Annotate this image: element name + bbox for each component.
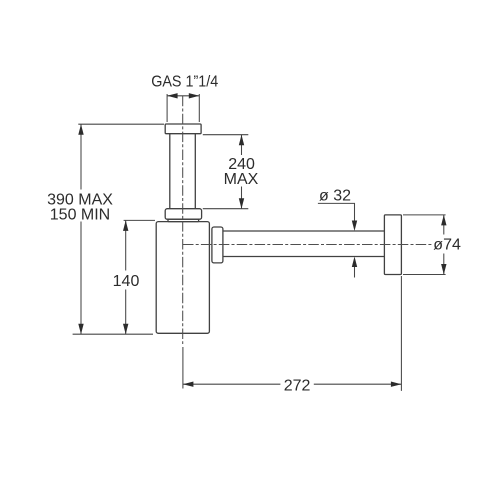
svg-text:ø 32: ø 32 xyxy=(319,187,351,204)
svg-text:ø74: ø74 xyxy=(433,236,461,253)
svg-text:MAX: MAX xyxy=(224,171,259,188)
svg-text:150 MIN: 150 MIN xyxy=(50,206,110,223)
svg-text:GAS 1”1/4: GAS 1”1/4 xyxy=(151,74,218,91)
svg-text:140: 140 xyxy=(113,273,140,290)
svg-text:272: 272 xyxy=(284,377,311,394)
